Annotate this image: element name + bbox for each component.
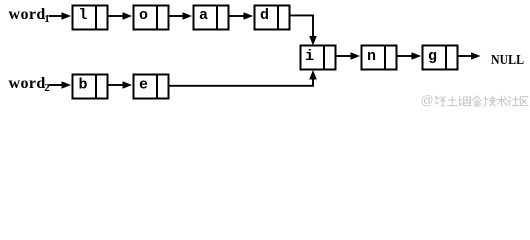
watermark char shu [497, 96, 507, 106]
wire word2 to node B [49, 81, 72, 89]
wire node I to node N [337, 52, 361, 60]
wire node D to node I (elbow down) [291, 15, 317, 45]
svg-text:a: a [199, 7, 208, 24]
watermark @juejin community (grey CJK strokes) [421, 93, 529, 108]
label word1 [9, 6, 50, 25]
watermark char qu [520, 97, 528, 106]
svg-text:@: @ [421, 93, 434, 108]
wire node O to node A [170, 12, 193, 20]
svg-text:d: d [260, 7, 269, 24]
svg-text:n: n [367, 48, 376, 65]
svg-text:e: e [139, 77, 148, 94]
wire node L to node O [109, 12, 133, 20]
wire node A to node D [230, 12, 254, 20]
watermark char xi [435, 96, 446, 106]
svg-text:b: b [78, 77, 87, 94]
svg-text:l: l [78, 7, 87, 24]
watermark char tu [447, 97, 458, 106]
node O (data 'o' + next) [134, 6, 169, 30]
node E (data 'e' + next) [134, 75, 169, 99]
watermark char jue [459, 96, 471, 106]
node B (data 'b' + next) [73, 75, 108, 99]
wire word1 to node L [49, 12, 72, 20]
svg-text:1: 1 [44, 13, 50, 25]
svg-text:g: g [428, 48, 437, 65]
node I (data 'i' + next, shared) [301, 46, 336, 70]
watermark char ji [483, 96, 495, 106]
node N (data 'n' + next) [362, 46, 397, 70]
svg-text:word: word [9, 6, 46, 23]
wire node B to node E [109, 81, 133, 89]
watermark char she [506, 96, 520, 106]
svg-text:o: o [139, 7, 148, 24]
svg-text:NULL: NULL [491, 53, 524, 68]
node A (data 'a' + next) [194, 6, 229, 30]
wire node E to node I (elbow up) [170, 70, 317, 86]
label word2 [9, 75, 51, 94]
node D (data 'd' + next) [255, 6, 290, 30]
svg-text:i: i [305, 48, 314, 65]
watermark char jin [472, 96, 481, 106]
node G (data 'g' + next) [423, 46, 458, 70]
svg-text:word: word [9, 75, 46, 92]
node L (data 'l' + next) [73, 6, 108, 30]
wire node G to NULL [459, 52, 481, 60]
svg-text:2: 2 [44, 82, 50, 94]
wire node N to node G [398, 52, 422, 60]
